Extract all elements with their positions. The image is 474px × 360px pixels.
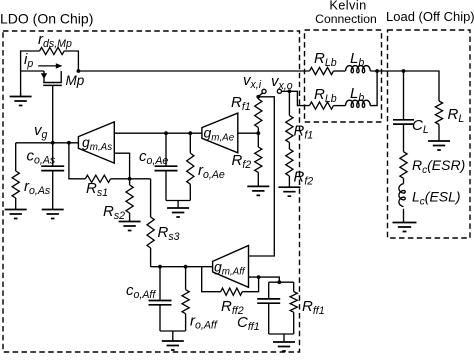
wire gm,As lower tap <box>114 153 129 179</box>
junction ro,Ae top <box>188 131 192 135</box>
resistor ro,Ae <box>187 133 194 200</box>
resistor Rf1 right <box>286 91 293 142</box>
wire Rc to Lc <box>403 178 405 183</box>
svg-text:Mp: Mp <box>66 73 85 88</box>
resistor ro,As <box>12 143 19 210</box>
junction vg gate <box>51 141 55 145</box>
wire gm,Aff output <box>249 277 280 282</box>
title Kelvin Connection <box>315 0 377 26</box>
ground under Rs2 <box>119 222 141 231</box>
label Lb bottom <box>350 85 364 104</box>
wire gate line <box>52 85 54 142</box>
label Rf1 right <box>294 123 314 142</box>
label vxi <box>243 72 262 91</box>
resistor Rff1 <box>290 282 297 334</box>
label Rf2 right <box>294 169 314 188</box>
label ro,As <box>24 178 51 197</box>
junction CL top <box>402 69 406 73</box>
ground under RL <box>428 141 450 150</box>
ground under Rf2 right <box>278 187 300 196</box>
wire gm,As top output <box>114 132 202 134</box>
resistor Rs3 <box>147 179 154 267</box>
label ip <box>24 51 33 70</box>
label Rs3 <box>158 224 180 243</box>
wire load rail <box>404 71 440 101</box>
ground under Lc <box>393 223 417 232</box>
op-amp gm,As <box>78 122 114 163</box>
wire feedback down <box>69 143 85 179</box>
ground under co,Aff ro,Aff <box>162 341 184 350</box>
label Rf1 left <box>231 94 251 113</box>
resistor Rff2 <box>202 267 259 296</box>
junction vg feedback <box>67 141 71 145</box>
wire vxi to sense line <box>249 97 275 256</box>
junction Cff1 rail <box>277 280 281 284</box>
Kelvin connection dashed box <box>305 30 382 122</box>
ground under co,As <box>42 210 64 219</box>
label gm,As <box>82 134 112 153</box>
wire aff bottom rail <box>160 331 186 341</box>
label Rff1 <box>302 298 325 317</box>
wire Lc to gnd <box>403 209 405 223</box>
ground at Mp source <box>10 93 32 106</box>
resistor ro,Aff <box>182 267 189 331</box>
label RLb top <box>314 50 337 69</box>
wire cff1 bottom rail <box>269 334 294 342</box>
capacitor Cff1 <box>257 282 280 334</box>
resistor Rf2 right <box>286 143 293 188</box>
wire rds,Mp loop <box>21 51 79 96</box>
label Rs1 <box>86 180 108 199</box>
wire RLb-Lb bottom <box>334 105 346 107</box>
svg-text:Connection: Connection <box>315 12 377 26</box>
ground under Rf2 left <box>247 186 269 195</box>
resistor Rf1 left <box>255 97 262 133</box>
label vxo <box>271 73 293 92</box>
junction ro,Aff top <box>184 265 188 269</box>
label Rff2 <box>221 298 244 317</box>
junction vxi <box>256 95 260 99</box>
junction co,Aff top <box>158 265 162 269</box>
capacitor co,As <box>41 143 64 210</box>
junction Rs2 top <box>128 177 132 181</box>
node vxo circle <box>277 89 281 93</box>
label vg <box>34 122 48 141</box>
resistor Rs1 <box>85 175 110 182</box>
svg-text:LDO (On Chip): LDO (On Chip) <box>0 11 93 27</box>
wire kelvin join <box>370 71 377 106</box>
capacitor CL <box>393 71 414 152</box>
current ip arrow <box>38 63 62 68</box>
LDO on-chip dashed boundary box <box>3 31 300 352</box>
label CL <box>412 117 429 136</box>
resistor Rc ESR <box>400 152 407 179</box>
label Rs2 <box>103 203 125 222</box>
label RLb bottom <box>314 86 337 105</box>
label Rf2 left <box>232 152 252 171</box>
ground under co,Ae ro,Ae <box>167 208 189 217</box>
label Rc ESR <box>412 157 465 176</box>
ground under Cff1 Rff1 <box>273 342 295 351</box>
resistor RLb bottom <box>310 102 334 109</box>
wire main output rail <box>78 70 309 72</box>
title Load (Off Chip) <box>386 9 474 24</box>
capacitor co,Ae <box>155 133 178 200</box>
wire Lb top out <box>370 70 403 72</box>
svg-text:Kelvin: Kelvin <box>329 0 366 13</box>
op-amp gm,Ae <box>202 113 238 153</box>
label rds,Mp <box>38 31 72 50</box>
wire cff1 top rail <box>269 281 294 283</box>
resistor rds,Mp <box>40 47 65 54</box>
wire vg rail <box>16 142 79 144</box>
ground under ro,As <box>5 210 27 219</box>
junction drain node <box>77 69 81 73</box>
wire Rs1 to Rs2 <box>111 178 151 180</box>
junction kelvin node <box>375 69 379 73</box>
Load off-chip dashed box <box>388 30 471 238</box>
label co,As <box>27 148 56 167</box>
capacitor co,Aff <box>149 267 172 331</box>
resistor Rf2 left <box>255 133 262 186</box>
resistor RL <box>435 101 442 141</box>
inductor Lb bottom <box>346 100 371 107</box>
label co,Aff <box>126 282 156 301</box>
label gm,Aff <box>214 258 246 277</box>
transistor Mp <box>41 71 62 85</box>
junction co,Ae top <box>164 131 168 135</box>
junction gm,Aff out <box>257 275 261 279</box>
label ro,Ae <box>198 162 225 181</box>
junction Rf chain mid <box>256 131 260 135</box>
node vxi circle <box>262 89 266 93</box>
wire co,Ae ro,Ae bottom rail <box>166 201 190 209</box>
wire vxo link <box>282 90 290 92</box>
label ro,Aff <box>190 313 218 332</box>
label RL <box>448 106 465 125</box>
wire bottom input rail <box>151 266 213 268</box>
wire source rail <box>21 70 44 72</box>
title LDO (On Chip) <box>0 11 93 27</box>
wire vxo to kelvin <box>289 91 309 105</box>
label Lb top <box>350 50 364 69</box>
op-amp gm,Aff <box>213 246 249 288</box>
label Lc ESL <box>412 189 461 208</box>
wire vxi stub <box>259 93 263 96</box>
svg-text:Load (Off Chip): Load (Off Chip) <box>386 9 474 24</box>
label Cff1 <box>237 314 260 333</box>
label Mp <box>66 73 85 88</box>
resistor Rs2 <box>126 179 133 222</box>
inductor Lb top <box>346 66 371 73</box>
inductor Lc ESL <box>399 184 405 207</box>
resistor RLb top <box>310 67 334 74</box>
wire RLb-Lb top <box>334 70 346 72</box>
label gm,Ae <box>204 124 235 143</box>
junction vxo <box>288 89 292 93</box>
wire gm,Ae output <box>238 132 258 134</box>
label co,Ae <box>139 148 168 167</box>
